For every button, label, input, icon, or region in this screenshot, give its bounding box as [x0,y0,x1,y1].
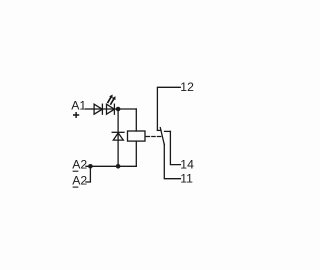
svg-text:11: 11 [180,172,193,186]
label 11 [180,172,193,186]
wire coil to bottom rail [135,141,137,166]
wire contact 14 [170,131,180,164]
bottom rail wire A2 [86,165,136,167]
LED arrowhead 2 [112,96,115,100]
svg-text:A2: A2 [72,174,87,188]
freewheeling diode V2 [113,133,123,140]
wire contact 12 [157,87,180,130]
svg-text:14: 14 [180,158,194,172]
LED indicator [107,104,115,114]
NC fixed contact foot [157,129,161,131]
diode V1 cathode bar [101,104,103,114]
wire A1 to diode [86,108,94,110]
freewheeling diode cathode bar [112,131,124,133]
minus polarity mark lower [73,186,78,188]
minus polarity mark upper [73,170,78,172]
junction dot at A2 [88,164,93,169]
dashed actuation link [146,136,161,138]
LED light arrow 2 [111,99,114,104]
contact armature [160,128,164,145]
node junction dot at LED cathode [116,107,121,112]
svg-text:A1: A1 [71,98,86,112]
relay coil K1 [128,131,146,141]
diode V1 (series protection diode) [94,104,102,114]
LED cathode bar [113,104,115,114]
NO fixed contact hook [165,130,171,132]
terminal A1 label [71,98,86,112]
wire between diodes [94,108,118,110]
wire common pole to 11 [164,144,180,178]
terminal A2 label (upper) [72,158,87,172]
label 12 [180,80,194,94]
freewheeling diode branch wire [117,109,119,166]
svg-text:12: 12 [180,80,194,94]
wire lower A2 elbow [86,166,90,182]
junction dot freewheel diode to rail [116,164,121,169]
wire from node to coil branch [118,108,136,110]
terminal A2 label (lower) [72,174,87,188]
svg-text:A2: A2 [72,158,87,172]
LED arrowhead 1 [109,95,112,99]
label 14 [180,158,194,172]
plus polarity mark [74,113,79,118]
wire down to relay coil [135,109,137,131]
LED light arrow 1 [108,97,111,102]
